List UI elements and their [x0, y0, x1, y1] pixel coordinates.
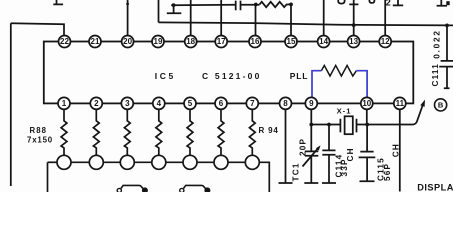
wire bus right with arrow to B — [367, 104, 423, 125]
node: rail-ground junction — [172, 3, 176, 7]
svg-text:9: 9 — [309, 99, 314, 108]
pin 13 — [348, 36, 360, 48]
svg-text:4: 4 — [157, 99, 162, 108]
wire pin11 down to display — [399, 109, 401, 192]
arrowhead to B — [420, 100, 425, 107]
pin 4 — [153, 97, 165, 109]
svg-text:7x150: 7x150 — [27, 135, 53, 144]
resistor (blue-marked, inside IC between pins 9-10) — [321, 65, 356, 76]
transistor Q2 (cut off at bottom) — [180, 185, 210, 192]
svg-text:R88: R88 — [30, 126, 48, 135]
node: rail-pin16 junction — [254, 3, 258, 7]
svg-text:DISPLAY: DISPLAY — [417, 182, 453, 192]
pin 19 — [152, 36, 164, 48]
wire bus to crystal — [311, 124, 340, 126]
node: small dot on pin20 wire — [126, 3, 129, 6]
node: bus-C111 junction — [445, 24, 449, 28]
svg-text:21: 21 — [91, 37, 100, 46]
svg-text:11: 11 — [396, 99, 405, 108]
junction dots top — [126, 3, 449, 28]
wire pin16 up to rail — [255, 5, 257, 37]
resistor R88-6 — [218, 109, 224, 155]
pin 6 — [215, 97, 227, 109]
pin 20 — [122, 36, 134, 48]
node: bus-pin13 junction — [352, 23, 356, 27]
resistor R88-1 — [61, 109, 67, 155]
node: C114 bus junction — [327, 123, 331, 127]
trimmer capacitor TC1 — [304, 125, 318, 184]
IC pin circles top row — [59, 36, 392, 48]
pin 16 — [249, 36, 261, 48]
resistor R88-3 — [124, 109, 130, 155]
wire top-left horizontal to pin22 — [11, 23, 64, 35]
svg-text:CH: CH — [392, 143, 401, 157]
wire pin15 up to rail — [290, 4, 292, 36]
svg-text:18: 18 — [186, 37, 195, 46]
svg-text:13: 13 — [349, 37, 358, 46]
IC U: IC5 C5121-00 PLL box — [44, 42, 414, 104]
wire pin8 down — [279, 109, 293, 183]
resistor R88-4 — [156, 109, 162, 155]
partial symbol T2 — [393, 0, 403, 5]
svg-text:2: 2 — [386, 0, 391, 7]
bottom middle section — [279, 104, 424, 192]
svg-text:3: 3 — [125, 99, 130, 108]
partial symbol T3 — [437, 0, 447, 6]
wire pin18 up — [190, 0, 192, 36]
wire pin17 up — [220, 0, 222, 36]
pin 12 — [379, 36, 391, 48]
node circle t3 — [120, 155, 134, 169]
partial blob — [446, 1, 449, 5]
svg-text:20P: 20P — [298, 138, 307, 156]
svg-text:6: 6 — [219, 99, 224, 108]
capacitor C111 — [439, 25, 453, 88]
svg-text:22: 22 — [60, 37, 69, 46]
svg-text:CH: CH — [346, 147, 355, 161]
wire pin10 down — [366, 109, 368, 125]
pin 3 — [121, 97, 133, 109]
wire blue pin9 to resistor — [312, 71, 321, 98]
pin 18 — [185, 36, 197, 48]
partial glyph o1 — [338, 0, 344, 4]
wire down at x=158.5 into bus — [158, 0, 160, 22]
wire connector row with terminal circles — [48, 161, 58, 163]
svg-text:5: 5 — [188, 99, 193, 108]
svg-text:16: 16 — [251, 37, 260, 46]
svg-text:C111: C111 — [431, 63, 440, 86]
svg-text:0.022: 0.022 — [432, 29, 441, 59]
wire segments between terminal circles — [71, 161, 245, 163]
resistor (series, top rail) — [260, 2, 291, 7]
crystal X-1 — [340, 119, 367, 133]
resistor R88-5 — [187, 109, 193, 155]
capacitor (series, top rail) — [236, 1, 241, 11]
node: rail-pin15 junction — [289, 3, 293, 7]
node: pin10 bus junction — [365, 123, 369, 127]
IC pin circles bottom row — [58, 97, 406, 109]
wire pin20 up to top edge — [127, 0, 129, 36]
node circle t7 — [245, 155, 259, 169]
resistor R94 — [249, 109, 255, 155]
resistor R88-2 — [93, 109, 99, 155]
capacitor C115 — [359, 125, 376, 182]
wire bus horizontal y~23 — [159, 22, 453, 25]
arrowhead TC1 — [316, 145, 321, 150]
svg-text:14: 14 — [319, 37, 328, 46]
svg-text:R 94: R 94 — [259, 126, 279, 135]
svg-text:20: 20 — [123, 37, 132, 46]
pin 7 — [246, 97, 258, 109]
connector B — [435, 99, 447, 111]
svg-text:15: 15 — [287, 37, 296, 46]
node: pin9 bus junction — [309, 123, 313, 127]
svg-text:B: B — [438, 101, 444, 110]
svg-text:TC1: TC1 — [292, 162, 301, 181]
wire pin14 up — [323, 0, 325, 36]
wire rail between cap and resistor — [241, 4, 260, 6]
node circle t1 — [57, 155, 71, 169]
ground — [167, 5, 182, 13]
pin 8 — [280, 97, 292, 109]
node circle t5 — [183, 155, 197, 169]
svg-text:17: 17 — [217, 37, 226, 46]
pin 9 — [305, 97, 317, 109]
pin 14 — [318, 36, 330, 48]
wire pin12 up — [384, 0, 386, 36]
svg-text:C 5121-00: C 5121-00 — [202, 71, 262, 81]
svg-text:56P: 56P — [383, 163, 392, 181]
pin 17 — [215, 36, 227, 48]
node circle t2 — [89, 155, 103, 169]
pin 15 — [285, 36, 297, 48]
pin 11 — [394, 97, 406, 109]
junction dots bottom — [309, 123, 369, 127]
svg-text:2: 2 — [94, 99, 99, 108]
pin 5 — [184, 97, 196, 109]
node circle t4 — [152, 155, 166, 169]
node circle t6 — [214, 155, 228, 169]
svg-text:10: 10 — [362, 99, 371, 108]
partial symbol T0 (above pin22 wire) — [53, 0, 63, 4]
pin 21 — [89, 36, 101, 48]
pin 2 — [90, 97, 102, 109]
svg-text:IC5: IC5 — [155, 71, 176, 81]
pin 10 — [361, 97, 373, 109]
wire pin9 down — [310, 109, 312, 125]
partial glyph o2 — [369, 0, 374, 3]
pin 1 — [58, 97, 70, 109]
wire top rail left segment — [171, 4, 235, 6]
svg-text:PLL: PLL — [290, 71, 308, 81]
svg-text:12: 12 — [381, 37, 390, 46]
svg-text:X-1: X-1 — [337, 106, 352, 115]
svg-text:1: 1 — [62, 99, 67, 108]
pin 22 — [59, 36, 71, 48]
wire pin13 up with cut-off capacitor plate — [349, 0, 358, 36]
svg-text:7: 7 — [250, 99, 255, 108]
capacitor C114 — [322, 125, 336, 184]
svg-text:19: 19 — [154, 37, 163, 46]
wire blue resistor to pin10 — [356, 71, 367, 98]
svg-text:8: 8 — [283, 99, 288, 108]
wire left vertical rail — [10, 23, 12, 186]
transistor Q1 (cut off at bottom) — [117, 185, 147, 192]
